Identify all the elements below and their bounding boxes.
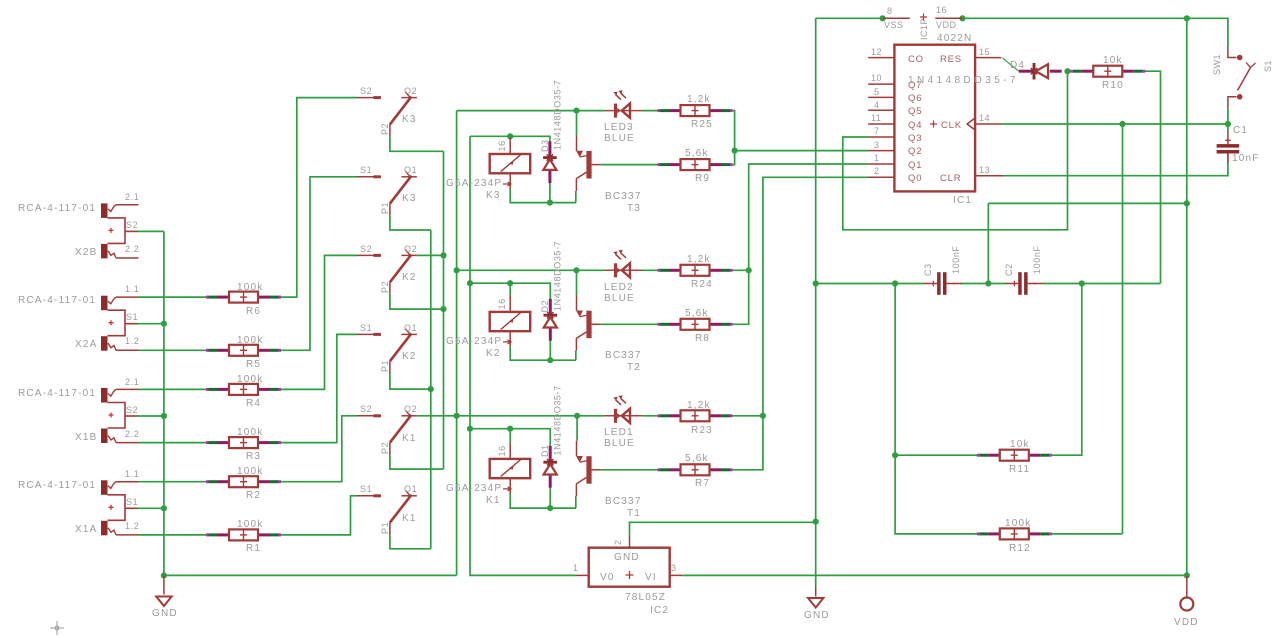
svg-text:O1: O1 [404, 323, 417, 333]
svg-text:GND: GND [804, 610, 830, 621]
wire K3 P2 link [390, 136, 444, 151]
junction GND rail left [161, 572, 167, 578]
junction CLK R12 [1119, 121, 1125, 127]
svg-text:100k: 100k [1005, 518, 1032, 529]
wire K3 coil top row to D3 [470, 136, 550, 141]
svg-text:BC337: BC337 [605, 496, 642, 507]
junction VDD rail mid row [1184, 200, 1190, 206]
wire K1 coil pin16 joint [509, 429, 511, 443]
svg-text:R8: R8 [695, 333, 710, 344]
wire K1 P1 link [390, 534, 431, 548]
svg-text:V0: V0 [600, 572, 615, 583]
wire R8 right to junction [731, 270, 749, 324]
wire X1A S1 stub [138, 507, 164, 509]
wire R11 left [895, 454, 977, 456]
diode D1 1N4148DO35-7 [540, 385, 563, 487]
svg-text:RCA-4-117-01: RCA-4-117-01 [18, 480, 96, 491]
wire K3 P1 link [390, 215, 431, 230]
junction VDD rail top [1184, 15, 1190, 21]
LED2 BLUE [604, 250, 643, 304]
svg-text:BLUE: BLUE [604, 293, 635, 304]
svg-text:16: 16 [497, 140, 507, 151]
svg-text:K3: K3 [402, 193, 417, 204]
svg-text:Q2: Q2 [908, 146, 922, 157]
svg-text:1,2k: 1,2k [687, 94, 711, 105]
svg-text:100k: 100k [237, 427, 264, 438]
wire chain D (relay supply) to IC2 V0 [470, 136, 577, 575]
wire K1 P2 link [390, 454, 444, 469]
junction cap row C2 right [1079, 280, 1085, 286]
svg-text:100nF: 100nF [951, 245, 961, 274]
switch contact K2 S1/O1/P1 [357, 323, 417, 373]
resistor R2 100k [206, 466, 281, 501]
diode D2 1N4148DO35-7 [540, 241, 563, 341]
IC1 power pins VSS/VDD [883, 5, 963, 40]
svg-text:GND: GND [152, 608, 178, 619]
wire X1A pin1.1 to R2 [139, 481, 209, 483]
svg-text:VSS: VSS [884, 20, 904, 30]
resistor R5 100k [206, 335, 281, 370]
svg-text:R23: R23 [691, 425, 713, 436]
wire IC1 pin7 to D4/R10 node [843, 71, 1068, 230]
svg-text:Q3: Q3 [908, 133, 922, 144]
junction D4 R10 node [1064, 68, 1070, 74]
junction D3 rail [547, 200, 553, 206]
relay coil K3 G6A-234P [446, 138, 530, 202]
wire K2 coil top row to D2 [470, 283, 550, 300]
wire T2 collector drop [576, 270, 578, 295]
wire IC2 GND pin to VSS chain [630, 522, 816, 535]
resistor R24 1,2k [658, 254, 733, 290]
wire LED3 row left [457, 110, 605, 112]
wire chain C (LED rows to rail) [456, 111, 458, 576]
svg-text:R3: R3 [246, 451, 261, 462]
junction cap row R11 chain [892, 280, 898, 286]
svg-text:2.2: 2.2 [125, 244, 139, 254]
junction T3 collector [573, 108, 579, 114]
svg-text:1N4148DO35-7: 1N4148DO35-7 [553, 241, 563, 311]
wire D1 anode to rail [549, 487, 551, 508]
wire X1B pin2.2 to R3 [139, 442, 209, 444]
junction VDD pin rail [959, 15, 965, 21]
wire K1 coil top row to D1 [470, 429, 550, 448]
wire LED2 row left [457, 269, 605, 271]
wire D4 R10 right to cap row [1143, 71, 1161, 283]
wire CLK to C1 top [1227, 124, 1229, 132]
wire cap row segment 2 [961, 283, 1006, 285]
svg-text:14: 14 [979, 113, 990, 123]
svg-text:15: 15 [979, 47, 990, 57]
svg-text:C1: C1 [1233, 125, 1248, 136]
svg-text:10k: 10k [1103, 55, 1123, 66]
junction VDD rail bottom [1184, 572, 1190, 578]
svg-text:G6A-234P: G6A-234P [446, 336, 502, 347]
svg-text:1.2: 1.2 [125, 521, 139, 531]
svg-text:IC1P: IC1P [919, 18, 929, 40]
svg-text:VI: VI [645, 572, 657, 583]
svg-text:Q0: Q0 [908, 173, 922, 184]
switch contact K1 S1/O1/P1 [357, 484, 417, 534]
resistor R6 100k [206, 282, 281, 317]
svg-text:11: 11 [871, 113, 881, 123]
svg-text:R12: R12 [1009, 543, 1031, 554]
svg-text:1N4148DO35-7: 1N4148DO35-7 [553, 385, 563, 455]
wire junction to IC1 pin1 [749, 164, 869, 270]
svg-text:4: 4 [874, 100, 880, 110]
wire bottom left rail GND to chain C [164, 574, 457, 576]
svg-text:2: 2 [613, 539, 623, 545]
junction cap row GND chain [813, 280, 819, 286]
svg-text:VDD: VDD [1174, 617, 1199, 628]
junction K2 coil row on chain D [467, 280, 473, 286]
wire RES pin15 diagonal to D4 [1002, 58, 1019, 71]
wire VDD rail vertical [1186, 18, 1188, 575]
svg-text:X2B: X2B [75, 247, 98, 258]
resistor R1 100k [206, 519, 281, 554]
svg-text:VDD: VDD [936, 20, 957, 30]
junction X2A S1 [161, 321, 167, 327]
LED1 BLUE [604, 395, 643, 449]
svg-text:S2: S2 [360, 86, 372, 96]
svg-text:CLK: CLK [941, 120, 962, 131]
relay coil K2 G6A-234P [446, 295, 530, 359]
svg-text:R24: R24 [691, 279, 713, 290]
diode D3 1N4148DO35-7 [540, 80, 563, 183]
wire K1 contact O2 to LED1 row [417, 415, 605, 417]
wire mid row to VDD rail [988, 203, 1187, 283]
wire K1 coil bottom to rail [510, 494, 576, 508]
svg-text:O1: O1 [404, 484, 417, 494]
junction LED2 row on chain C [454, 267, 460, 273]
wire R5 to K3 contact S1 [279, 177, 358, 350]
wire cap row segment 3 [1042, 283, 1161, 285]
switch contact K3 S1/O1/P1 [357, 165, 417, 215]
svg-text:4022N: 4022N [937, 33, 972, 44]
svg-text:1.1: 1.1 [125, 469, 139, 479]
wire CLK to R12 vertical [1122, 124, 1124, 534]
relay coil K1 G6A-234P [446, 442, 530, 506]
wire LED2 to R24 [643, 269, 662, 271]
svg-text:1,2k: 1,2k [687, 254, 711, 265]
svg-text:10k: 10k [1010, 439, 1030, 450]
wire R23 right to junction [731, 415, 763, 417]
junction X1A S1 [161, 505, 167, 511]
svg-text:P2: P2 [380, 442, 390, 454]
wire K2 P2 link [390, 294, 444, 309]
junction CLK SW1 C1 [1225, 121, 1231, 127]
svg-text:100k: 100k [237, 282, 264, 293]
connector X2A [18, 284, 139, 351]
svg-text:BC337: BC337 [605, 350, 642, 361]
capacitor C3 100nF [923, 245, 962, 294]
svg-text:16: 16 [497, 445, 507, 456]
wire K3 coil bottom to rail [510, 189, 576, 203]
svg-text:S1: S1 [1263, 60, 1273, 72]
switch contact K2 S2/O2/P2 [357, 244, 417, 294]
svg-text:RCA-4-117-01: RCA-4-117-01 [18, 203, 96, 214]
wire R1 to K1 contact S1 [279, 496, 358, 535]
svg-text:R25: R25 [691, 119, 713, 130]
junction K2 P1 on chain B [428, 386, 434, 392]
svg-text:1N4148DO35-7: 1N4148DO35-7 [553, 80, 563, 150]
svg-text:RCA-4-117-01: RCA-4-117-01 [18, 388, 96, 399]
svg-text:1: 1 [874, 153, 880, 163]
wire T3 collector drop [576, 111, 578, 136]
wire X2A pin1.1 to R6 [139, 296, 209, 298]
wire D2 anode to rail [549, 340, 551, 360]
svg-text:1.2: 1.2 [125, 336, 139, 346]
svg-text:K2: K2 [402, 351, 417, 362]
junction K1 coil row on chain D [467, 426, 473, 432]
svg-text:R7: R7 [695, 478, 710, 489]
wire K2 contact O2 to chain A [417, 254, 444, 256]
svg-text:D2: D2 [540, 300, 550, 313]
wire X2A pin1.2 to R5 [139, 349, 209, 351]
wire K2 coil pin16 joint [509, 283, 511, 295]
svg-text:R1: R1 [246, 543, 261, 554]
svg-text:5,6k: 5,6k [685, 453, 709, 464]
svg-text:P2: P2 [380, 281, 390, 293]
svg-text:Q4: Q4 [908, 120, 922, 131]
wire cap row to R11/R12 chain [895, 284, 977, 534]
svg-text:13: 13 [979, 165, 990, 175]
wire K2 coil bottom to rail [510, 347, 576, 360]
wire R24 right to junction [731, 269, 749, 271]
switch contact K3 S2/O2/P2 [357, 86, 417, 136]
svg-text:5,6k: 5,6k [685, 308, 709, 319]
wire X2B S2 stub [138, 230, 164, 232]
svg-text:D4: D4 [1010, 60, 1025, 71]
resistor R25 1,2k [658, 94, 733, 130]
wire K3 coil pin16 joint [509, 136, 511, 138]
connector X2B [18, 192, 139, 258]
wire R7 right to junction [731, 416, 763, 470]
svg-text:K1: K1 [402, 513, 417, 524]
svg-text:2: 2 [874, 166, 880, 176]
svg-text:O2: O2 [404, 86, 417, 96]
svg-text:5: 5 [874, 87, 880, 97]
junction R11 left [892, 452, 898, 458]
wire junction to IC1 pin2 [763, 177, 869, 415]
ground symbol GND right [804, 587, 830, 622]
svg-text:Q5: Q5 [908, 106, 922, 117]
junction T2 collector [573, 267, 579, 273]
wire VSS/CO chain down to GND2 [815, 18, 817, 586]
wire T3 base to R9 [601, 164, 658, 166]
svg-text:1: 1 [573, 563, 579, 573]
svg-text:S2: S2 [126, 405, 138, 415]
svg-text:P2: P2 [380, 123, 390, 135]
junction D2 rail [547, 357, 553, 363]
switch SW1 S1 pushbutton [1212, 47, 1273, 107]
svg-text:78L05Z: 78L05Z [625, 592, 666, 603]
resistor R8 5,6k [658, 308, 733, 344]
svg-text:D1: D1 [540, 444, 550, 457]
svg-text:P1: P1 [380, 522, 390, 534]
wire SW1 bottom to CLK [1227, 107, 1229, 124]
svg-text:100k: 100k [237, 335, 264, 346]
svg-text:O2: O2 [404, 244, 417, 254]
wire top rail left segment [816, 17, 883, 19]
svg-text:T1: T1 [627, 508, 641, 519]
svg-text:IC1: IC1 [953, 195, 972, 206]
IC2 78L05Z voltage regulator [573, 535, 682, 616]
svg-text:2.1: 2.1 [125, 192, 139, 202]
svg-text:10: 10 [871, 73, 882, 83]
capacitor C1 10nF [1217, 125, 1260, 164]
svg-text:BC337: BC337 [605, 191, 642, 202]
svg-text:7: 7 [874, 126, 880, 136]
svg-text:R4: R4 [246, 398, 261, 409]
wire R25 right to junction [731, 111, 735, 151]
svg-text:X1B: X1B [75, 432, 98, 443]
svg-text:R2: R2 [246, 490, 261, 501]
transistor T1 BC337 [576, 441, 641, 519]
junction T1 collector [574, 413, 580, 419]
svg-text:K2: K2 [402, 272, 417, 283]
junction X1B S2 [161, 413, 167, 419]
svg-text:S2: S2 [126, 220, 138, 230]
wire IC1 pin13 CLR row [1004, 162, 1228, 176]
svg-text:G6A-234P: G6A-234P [446, 178, 502, 189]
wire R11 right to cap row [1052, 284, 1082, 456]
svg-text:CLR: CLR [940, 173, 961, 184]
ground symbol GND left [152, 575, 178, 619]
svg-text:S1: S1 [360, 165, 372, 175]
junction IC2 GND row [813, 519, 819, 525]
wire R9 right to junction [731, 151, 735, 165]
svg-text:IC2: IC2 [650, 605, 669, 616]
junction VSS rail [880, 15, 886, 21]
svg-text:D3: D3 [540, 139, 550, 152]
wire K2 P1 link [390, 373, 431, 389]
resistor R9 5,6k [658, 148, 733, 184]
wire X1B pin2.1 to R4 [139, 388, 209, 390]
connector X1B [18, 377, 139, 443]
svg-text:S2: S2 [360, 244, 372, 254]
transistor T2 BC337 [576, 295, 641, 373]
svg-text:S1: S1 [126, 312, 138, 322]
wire cap row segment 1 [816, 283, 925, 285]
wire R12 right to CLK vertical [1052, 533, 1123, 535]
wire LED3 to R25 [643, 110, 662, 112]
wire T1 base to R7 [601, 469, 658, 471]
svg-text:X2A: X2A [75, 339, 98, 350]
resistor R23 1,2k [658, 400, 733, 436]
resistor R10 10k [1070, 55, 1145, 91]
svg-text:R6: R6 [246, 306, 261, 317]
svg-text:K1: K1 [486, 495, 501, 506]
wire T2 emitter to rail [575, 351, 577, 361]
svg-text:3: 3 [874, 140, 880, 150]
svg-text:RCA-4-117-01: RCA-4-117-01 [18, 295, 96, 306]
svg-text:K1: K1 [402, 433, 417, 444]
svg-text:1N4148DO35-7: 1N4148DO35-7 [908, 75, 1019, 86]
svg-text:S2: S2 [360, 404, 372, 414]
svg-text:LED3: LED3 [604, 122, 634, 133]
resistor R12 100k [977, 518, 1052, 554]
wire T1 emitter to rail [575, 496, 577, 508]
resistor R7 5,6k [658, 453, 733, 489]
wire T1 collector drop [576, 416, 578, 441]
junction K2 P2 on chain A [440, 306, 446, 312]
svg-text:P1: P1 [380, 202, 390, 214]
svg-text:RES: RES [940, 54, 962, 65]
diode D4 1N4148DO35-7 [908, 60, 1062, 86]
svg-text:2.2: 2.2 [125, 429, 139, 439]
svg-text:R11: R11 [1009, 464, 1030, 475]
svg-text:100k: 100k [237, 374, 264, 385]
junction D1 rail [547, 505, 553, 511]
svg-text:1.1: 1.1 [125, 284, 139, 294]
svg-text:R5: R5 [246, 359, 261, 370]
svg-text:BLUE: BLUE [604, 133, 635, 144]
svg-text:GND: GND [614, 552, 640, 563]
wire chain A (P2 bus) [443, 151, 445, 469]
resistor R3 100k [206, 427, 281, 462]
svg-text:G6A-234P: G6A-234P [446, 483, 502, 494]
junction K3 coil pin16 [507, 133, 513, 139]
svg-text:BLUE: BLUE [604, 438, 635, 449]
svg-text:C3: C3 [923, 263, 933, 276]
svg-text:LED1: LED1 [604, 427, 634, 438]
wire X1A pin1.2 to R1 [139, 534, 209, 536]
svg-text:O1: O1 [404, 165, 417, 175]
svg-text:T3: T3 [627, 203, 641, 214]
svg-text:1,2k: 1,2k [687, 400, 711, 411]
wire X1B S2 stub [138, 415, 164, 417]
wire T2 base to R8 [601, 323, 658, 325]
transistor T3 BC337 [576, 136, 641, 214]
resistor R4 100k [206, 374, 281, 409]
wire X2A S1 stub [138, 323, 164, 325]
svg-text:100k: 100k [237, 519, 264, 530]
wire chain B (P1 bus) [430, 230, 432, 549]
svg-text:100nF: 100nF [1032, 245, 1042, 274]
wire junction to IC1 pin3 [735, 150, 869, 152]
wire top rail right segment to SW1 [963, 18, 1228, 47]
junction K1 coil pin16 [507, 426, 513, 432]
svg-text:O2: O2 [404, 404, 417, 414]
junction LED1 row on chain C [454, 413, 460, 419]
connector X1A [18, 469, 139, 535]
svg-text:16: 16 [936, 5, 947, 15]
svg-text:K2: K2 [486, 348, 501, 359]
svg-text:16: 16 [497, 298, 507, 309]
IC1 4022N counter [868, 33, 1003, 206]
svg-text:R10: R10 [1102, 80, 1124, 91]
svg-text:C2: C2 [1004, 263, 1014, 276]
svg-text:8: 8 [887, 6, 893, 16]
svg-text:X1A: X1A [75, 524, 98, 535]
svg-text:12: 12 [871, 47, 882, 57]
wire IC1 pin14 CLK row [1001, 123, 1228, 125]
svg-text:Q6: Q6 [908, 93, 922, 104]
wire ground bus vertical from X2B S2 down to bottom rail [163, 231, 165, 575]
junction R25/R9 to Q2 [732, 148, 738, 154]
wire LED1 to R23 [643, 415, 662, 417]
svg-text:R9: R9 [695, 173, 710, 184]
svg-text:100k: 100k [237, 466, 264, 477]
svg-text:CO: CO [908, 54, 924, 65]
wire R4 to K2 contact S2 [279, 255, 358, 389]
svg-text:T2: T2 [627, 362, 641, 373]
svg-text:S1: S1 [360, 484, 372, 494]
svg-text:P1: P1 [380, 360, 390, 372]
svg-text:SW1: SW1 [1212, 54, 1222, 75]
svg-text:K3: K3 [486, 190, 501, 201]
wire R3 to K2 contact S1 [279, 334, 358, 442]
